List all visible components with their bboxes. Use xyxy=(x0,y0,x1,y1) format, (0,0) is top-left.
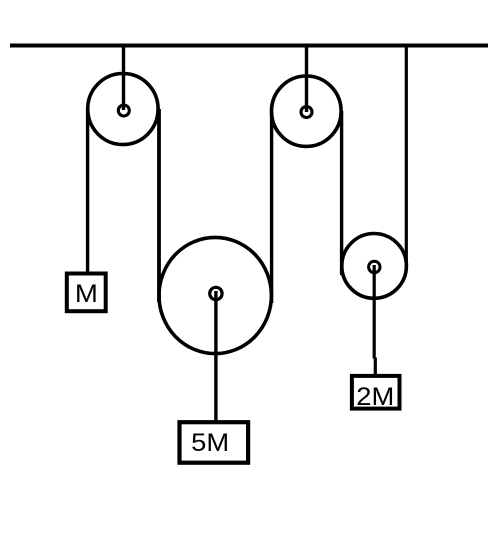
rope segment G: pulley P4 hub down to mass 2M (upper part) xyxy=(373,265,376,359)
svg-text:M: M xyxy=(75,280,98,308)
rope segment E: ceiling down to pulley P4 right side xyxy=(405,46,408,271)
mass M box xyxy=(67,274,106,312)
svg-text:2M: 2M xyxy=(356,383,394,411)
hanger rope of fixed pulley P2 xyxy=(305,46,308,113)
axle hub of pulley P2 xyxy=(301,107,312,118)
rope segment B: pulley P1 right side down to pulley P3 left side xyxy=(157,109,161,302)
movable pulley P4 (small, right) xyxy=(342,234,407,299)
axle hub of pulley P4 xyxy=(369,261,380,272)
axle hub of pulley P1 xyxy=(118,105,129,116)
rope segment F: pulley P3 hub down to mass 5M xyxy=(214,291,217,422)
svg-text:5M: 5M xyxy=(191,429,229,457)
rope segment A: pulley P1 left side down to mass M xyxy=(86,109,89,272)
fixed pulley P2 (top right) xyxy=(272,76,342,146)
hanger rope of fixed pulley P1 xyxy=(122,46,125,111)
axle hub of pulley P3 xyxy=(210,287,222,299)
rope segment G: jogged lower part down to mass 2M xyxy=(374,358,377,378)
rope segment C: pulley P3 right side up to pulley P2 left side xyxy=(270,111,273,303)
fixed pulley P1 (top left) xyxy=(88,74,158,145)
rope segment D: pulley P2 right side down to pulley P4 left side xyxy=(340,111,343,275)
ceiling beam xyxy=(10,43,488,47)
mass 2M box xyxy=(352,376,400,409)
mass 5M box xyxy=(180,422,249,463)
movable pulley P3 (large, center) xyxy=(159,237,271,353)
